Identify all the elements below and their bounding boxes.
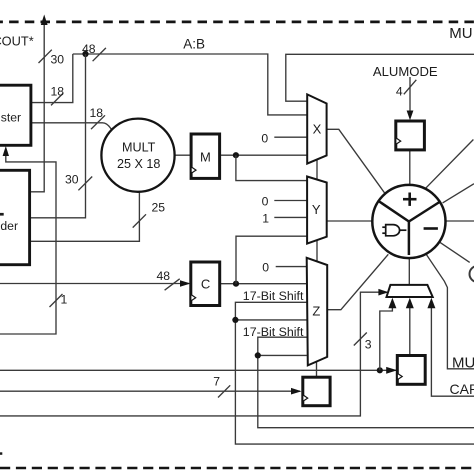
- arrow carry mux input middle: [406, 298, 414, 309]
- wire C input bus 48: [0, 283, 189, 285]
- wire X input from right cascade: [286, 54, 474, 101]
- svg-text:0: 0: [262, 260, 269, 274]
- junction dot PCIN: [232, 317, 238, 323]
- clock triangle ALUMODE register: [396, 138, 401, 145]
- wire ALUMODE register to ALU: [409, 150, 411, 185]
- bus slash 18 out1: [51, 93, 63, 105]
- wire mux select stub Y-Z: [316, 240, 318, 261]
- svg-text:25 X 18: 25 X 18: [117, 157, 160, 171]
- svg-text:A:B: A:B: [183, 36, 205, 51]
- junction dot A:B: [82, 51, 88, 57]
- wire Y mux output to ALU: [327, 220, 373, 222]
- wire B register output1 18: [31, 54, 73, 103]
- svg-text:30: 30: [65, 173, 79, 187]
- wire Y constant 1 stub: [274, 216, 307, 218]
- svg-text:25: 25: [152, 201, 166, 215]
- svg-text:MU: MU: [449, 25, 472, 42]
- ALU divider down: [408, 222, 411, 256]
- P register box below Z: [303, 377, 330, 406]
- bus slash 4 ALUMODE: [404, 80, 417, 95]
- carry mux trapezoid: [387, 285, 433, 297]
- carry register box: [397, 356, 425, 385]
- bus slash 25: [133, 214, 146, 227]
- clock triangle M: [191, 167, 196, 174]
- svg-text:der: der: [0, 219, 18, 233]
- B register box: [0, 85, 31, 145]
- svg-text:Y: Y: [312, 202, 321, 217]
- wire carryin bus to register: [0, 369, 396, 371]
- clock triangle carry register: [397, 373, 402, 380]
- Y mux: [307, 177, 327, 244]
- wire ALU diagonal upper right: [425, 140, 473, 189]
- svg-text:30: 30: [51, 52, 65, 66]
- svg-text:CARR: CARR: [450, 381, 474, 397]
- svg-text:17-Bit Shift: 17-Bit Shift: [243, 289, 304, 303]
- wire mux select stub X-Y: [316, 160, 318, 180]
- svg-text:MULT: MULT: [122, 141, 156, 155]
- arrow ALUMODE into register: [407, 111, 414, 121]
- A D pre-adder box: [0, 170, 30, 264]
- arrow carry mux input right: [427, 298, 435, 309]
- M register box: [191, 134, 220, 178]
- bus slash 48 C: [165, 279, 180, 290]
- wire 17-bit shift upper into Z: [235, 302, 474, 444]
- svg-text:0: 0: [262, 194, 269, 208]
- wire Y constant 0 stub: [274, 200, 307, 202]
- wire carry register to carry mux: [409, 303, 411, 356]
- wire ALU P output right: [446, 220, 474, 222]
- ALUMODE register box: [396, 121, 425, 150]
- bus slash 30 A: [78, 177, 92, 191]
- wire M branch to Y mux: [236, 155, 307, 180]
- svg-text:C: C: [201, 277, 210, 292]
- wire M output to X mux: [220, 154, 308, 156]
- svg-text:MU: MU: [452, 355, 474, 372]
- wire carry riser to carry mux: [380, 303, 393, 370]
- svg-text:17-Bit Shift: 17-Bit Shift: [243, 325, 304, 339]
- bus slash 7: [218, 385, 230, 397]
- wire Z mux output to P register: [316, 362, 318, 378]
- arrow into carry register: [386, 367, 397, 374]
- arrow into P register: [291, 388, 302, 395]
- svg-text:18: 18: [90, 106, 104, 120]
- svg-text:1: 1: [61, 293, 68, 307]
- ALU and-gate symbol: [382, 225, 406, 236]
- arrow ACOUT up: [41, 15, 48, 26]
- ALU minus sign: [424, 227, 438, 230]
- junction dot M output: [233, 152, 239, 158]
- wire ACOUT vertical: [30, 19, 44, 192]
- svg-text:1: 1: [262, 211, 269, 225]
- wire multsignout: [426, 254, 474, 368]
- footnote asterisk fragment: [0, 452, 2, 455]
- svg-text:0: 0: [261, 132, 268, 146]
- arrow into C register: [180, 280, 191, 286]
- X mux: [307, 94, 326, 163]
- wire ALU to comparator: [439, 242, 469, 263]
- wire X mux output to ALU: [327, 129, 386, 194]
- wire A:B bus to X mux: [73, 54, 308, 115]
- comparator circle partial: [470, 266, 474, 282]
- svg-text:18: 18: [51, 85, 65, 99]
- svg-text:7: 7: [213, 374, 220, 388]
- arrow carry mux input left-bottom: [388, 298, 396, 309]
- dashed slice border bottom: [0, 467, 474, 469]
- junction dot carry bus: [377, 367, 383, 373]
- Z mux: [307, 258, 328, 366]
- bus slash 1: [50, 294, 63, 307]
- ALU divider upper-left: [379, 201, 409, 222]
- wire MULT to M register: [175, 154, 191, 156]
- junction dot C output: [233, 281, 239, 287]
- wire carrycascout: [431, 303, 474, 396]
- wire B to MULT 18: [31, 123, 112, 130]
- wire PCIN into Z: [235, 319, 307, 321]
- bus slash 48 A:B: [93, 48, 106, 61]
- svg-text:Z: Z: [312, 304, 320, 319]
- wire ALUMODE: [409, 77, 411, 113]
- junction dot P feedback: [255, 352, 261, 358]
- svg-text:48: 48: [82, 42, 96, 56]
- clock triangle C: [191, 294, 196, 301]
- bus slash 30 ACOUT: [39, 50, 52, 63]
- wire opmode bus 7: [0, 390, 300, 392]
- bus slash 3: [354, 333, 367, 346]
- wire B-reg feedback 1-bit: [0, 149, 56, 334]
- wire Z constant 0 stub: [276, 266, 307, 268]
- svg-text:4: 4: [396, 85, 403, 99]
- svg-text:48: 48: [157, 269, 171, 283]
- wire Z mux output to ALU: [327, 254, 388, 309]
- arrow into B register: [3, 146, 9, 156]
- wire ALU to carry mux: [408, 258, 410, 285]
- ALU circle: [372, 185, 445, 258]
- wire P feedback into Z: [258, 354, 307, 356]
- svg-text:M: M: [200, 149, 211, 164]
- wire C branch to Y mux: [236, 236, 307, 284]
- wire carryinsel 3: [0, 292, 387, 416]
- arrow into carry mux left: [378, 289, 388, 296]
- C register box: [191, 262, 220, 306]
- bus slash 18 B-MULT: [91, 115, 105, 129]
- svg-text:3: 3: [365, 337, 372, 351]
- dashed slice border top: [0, 21, 474, 24]
- svg-text:ALUMODE: ALUMODE: [373, 64, 438, 79]
- label pre-adder hyphen: [0, 213, 4, 216]
- wire C output to Z mux: [220, 283, 307, 285]
- wire X constant 0 stub: [274, 136, 307, 138]
- svg-text:ACOUT*: ACOUT*: [0, 34, 34, 49]
- wire A feed riser to A:B: [30, 54, 86, 218]
- wire 17-bit shift lower into Z: [258, 337, 474, 428]
- ALU divider upper-right: [409, 202, 440, 222]
- MULT circle: [101, 119, 174, 192]
- ALU plus sign: [403, 193, 417, 206]
- wire ALU diagonal right: [443, 184, 474, 203]
- svg-text:X: X: [313, 121, 322, 136]
- svg-text:ster: ster: [1, 111, 21, 125]
- wire AD to MULT 25: [30, 192, 140, 241]
- clock triangle P register: [303, 395, 308, 402]
